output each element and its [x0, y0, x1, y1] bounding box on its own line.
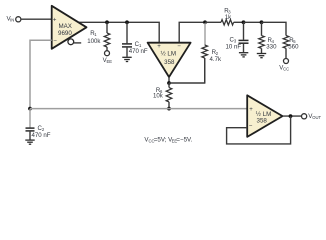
wire opamp2 feedback loop	[227, 116, 291, 144]
svg-text:EE: EE	[107, 59, 113, 64]
junction node R1/top wire	[105, 20, 109, 24]
R4 label	[266, 37, 277, 50]
wire C3 node to R4 node	[244, 21, 262, 23]
svg-text:=5V; V: =5V; V	[154, 136, 173, 143]
svg-text:OUT: OUT	[312, 115, 321, 120]
node VOUT terminal	[302, 114, 307, 119]
ground under C3	[239, 53, 248, 57]
svg-text:−: −	[249, 122, 253, 129]
wire comparator output to node at top (net A)	[78, 22, 160, 42]
resistor R3 1k	[221, 20, 234, 25]
svg-text:100k: 100k	[87, 38, 101, 45]
ground under R4	[257, 54, 266, 58]
comparator U1 MAX9690	[52, 6, 87, 49]
svg-text:CC: CC	[283, 67, 289, 72]
junction node C1/top wire	[125, 20, 129, 24]
svg-text:330: 330	[266, 44, 277, 51]
svg-text:+: +	[157, 43, 161, 50]
resistor R1 100k	[104, 22, 110, 50]
junction node R2/R3	[203, 20, 207, 24]
capacitor C1 470nF	[122, 22, 132, 57]
wire VIN to comparator + input	[21, 18, 52, 20]
svg-text:10k: 10k	[153, 92, 164, 99]
junction node opamp1 output	[167, 81, 171, 85]
resistor R2 4.7k	[202, 45, 208, 83]
junction node opamp2 output	[289, 114, 293, 118]
node VEE label	[103, 57, 113, 64]
junction node C3	[242, 20, 246, 24]
R1 label	[87, 30, 101, 45]
junction node R4	[260, 20, 264, 24]
C3 label	[226, 37, 242, 51]
svg-text:IN: IN	[10, 18, 14, 23]
svg-text:470 nF: 470 nF	[129, 48, 148, 55]
C2 label	[32, 125, 51, 139]
wire opamp1 output down to node	[168, 77, 170, 83]
gray wire comparator minus input net	[30, 40, 52, 108]
R5 label	[288, 37, 299, 50]
gray long wire to opamp2 + input	[30, 108, 247, 110]
node VCC terminal under R5	[284, 59, 289, 64]
svg-text:10 nF: 10 nF	[226, 43, 242, 50]
resistor R5 560	[283, 36, 289, 59]
wire R3 left lead	[205, 21, 221, 23]
svg-text:+: +	[249, 106, 253, 113]
C1 label	[129, 41, 148, 55]
op-amp U2B LM358 (output buffer)	[247, 95, 282, 137]
node VEE terminal under R1	[105, 51, 110, 56]
ground under C1	[122, 57, 131, 61]
op-amp U2A LM358 (integrator, pointing down)	[148, 43, 191, 77]
gray lead from R2 node down to R2	[204, 23, 206, 45]
resistor R6 10k	[166, 83, 172, 109]
wire R4 node to R5 corner	[262, 22, 287, 35]
R2 label	[210, 49, 222, 63]
svg-text:560: 560	[288, 44, 299, 51]
svg-text:−: −	[177, 43, 181, 50]
node VOUT label	[308, 113, 321, 120]
R6 label	[153, 87, 164, 99]
svg-text:=−5V.: =−5V.	[176, 136, 192, 143]
wire opamp2 output	[283, 115, 302, 117]
node VCC label	[279, 65, 289, 72]
node VIN label	[7, 16, 15, 23]
svg-text:−: −	[53, 38, 57, 45]
wire net B: opamp1 minus input up and right to R2 node	[179, 22, 205, 42]
comparator inverted output bubble and stub	[68, 39, 81, 45]
svg-text:1k: 1k	[225, 14, 232, 21]
capacitor C3 10nF	[239, 22, 249, 52]
node VIN terminal	[16, 17, 21, 22]
note VCC=5V VEE=-5V	[144, 136, 192, 143]
svg-text:470 nF: 470 nF	[32, 132, 51, 139]
svg-text:358: 358	[164, 59, 175, 66]
svg-text:MAX: MAX	[58, 23, 71, 30]
svg-text:+: +	[53, 16, 57, 23]
junction node R6 bottom on gray net	[167, 107, 171, 111]
svg-text:½ LM: ½ LM	[161, 50, 176, 57]
wire opamp1 output to R2 bottom	[169, 58, 205, 83]
capacitor C2 470nF	[26, 109, 35, 140]
svg-text:4.7k: 4.7k	[210, 56, 222, 63]
svg-text:358: 358	[257, 118, 268, 125]
resistor R4 330	[259, 22, 265, 53]
R3 label	[224, 7, 232, 21]
svg-text:9690: 9690	[58, 30, 72, 37]
wire R3 right lead	[234, 21, 244, 23]
ground under C2	[25, 140, 34, 144]
junction node C2	[28, 107, 32, 111]
